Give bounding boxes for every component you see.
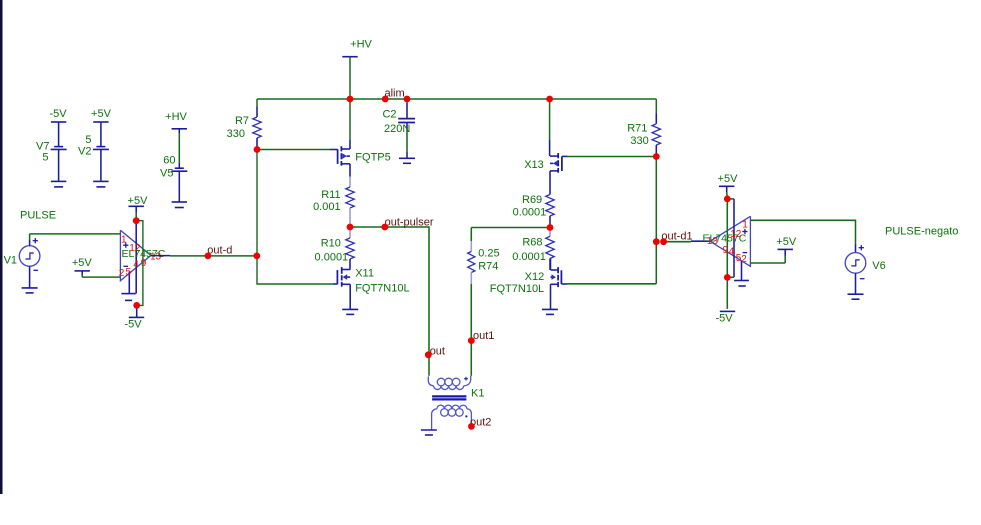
svg-text:330: 330	[630, 135, 648, 147]
svg-text:out-pulser: out-pulser	[385, 216, 434, 228]
svg-text:2: 2	[741, 254, 747, 265]
svg-text:R71: R71	[627, 123, 647, 135]
svg-text:0.0001: 0.0001	[513, 206, 547, 218]
svg-text:4: 4	[729, 247, 735, 258]
svg-text:4: 4	[133, 260, 139, 271]
svg-text:V6: V6	[872, 260, 885, 272]
svg-text:C2: C2	[382, 109, 396, 121]
svg-text:220N: 220N	[384, 123, 410, 135]
svg-text:R11: R11	[321, 189, 340, 201]
svg-text:R7: R7	[235, 115, 249, 127]
svg-text:1: 1	[742, 220, 748, 231]
svg-text:+5V: +5V	[128, 195, 149, 207]
svg-text:60: 60	[163, 154, 175, 166]
svg-text:+HV: +HV	[350, 39, 372, 51]
svg-text:PULSE: PULSE	[20, 210, 56, 222]
svg-text:V5: V5	[160, 168, 173, 180]
svg-text:V2: V2	[78, 146, 91, 158]
svg-text:1: 1	[121, 234, 127, 245]
svg-text:0.0001: 0.0001	[512, 251, 546, 263]
svg-text:R69: R69	[522, 194, 542, 206]
svg-text:X11: X11	[355, 268, 374, 280]
svg-text:0.001: 0.001	[313, 201, 341, 213]
svg-text:+5V: +5V	[776, 236, 797, 248]
svg-text:5: 5	[85, 134, 91, 146]
svg-text:13: 13	[150, 251, 162, 262]
svg-text:330: 330	[227, 128, 245, 140]
svg-text:-5V: -5V	[124, 318, 142, 330]
svg-text:K1: K1	[471, 387, 484, 399]
svg-text:out-d: out-d	[207, 244, 232, 256]
svg-text:9: 9	[141, 258, 147, 269]
svg-text:R74: R74	[478, 261, 498, 273]
svg-text:5: 5	[42, 152, 48, 164]
svg-text:X13: X13	[524, 159, 544, 171]
svg-text:9: 9	[723, 245, 729, 256]
svg-text:+5V: +5V	[91, 108, 112, 120]
svg-text:+5V: +5V	[72, 257, 93, 269]
svg-text:FQTP5: FQTP5	[355, 152, 390, 164]
svg-text:-5V: -5V	[49, 108, 67, 120]
svg-text:FQT7N10L: FQT7N10L	[490, 283, 544, 295]
svg-text:V1: V1	[4, 255, 17, 267]
svg-text:0.25: 0.25	[478, 248, 499, 260]
svg-text:out: out	[430, 346, 445, 358]
svg-text:+5V: +5V	[718, 173, 739, 185]
svg-text:R10: R10	[321, 238, 341, 250]
svg-text:+HV: +HV	[165, 111, 187, 123]
svg-text:PULSE-negato: PULSE-negato	[885, 226, 958, 238]
svg-text:FQT7N10L: FQT7N10L	[355, 283, 409, 295]
svg-text:5: 5	[126, 267, 132, 278]
svg-text:out1: out1	[473, 330, 494, 342]
svg-text:0.0001: 0.0001	[315, 251, 349, 263]
svg-text:R68: R68	[522, 237, 542, 249]
svg-text:13: 13	[707, 236, 719, 247]
svg-text:X12: X12	[525, 271, 545, 283]
svg-text:2: 2	[119, 268, 125, 279]
svg-text:-5V: -5V	[715, 313, 733, 325]
